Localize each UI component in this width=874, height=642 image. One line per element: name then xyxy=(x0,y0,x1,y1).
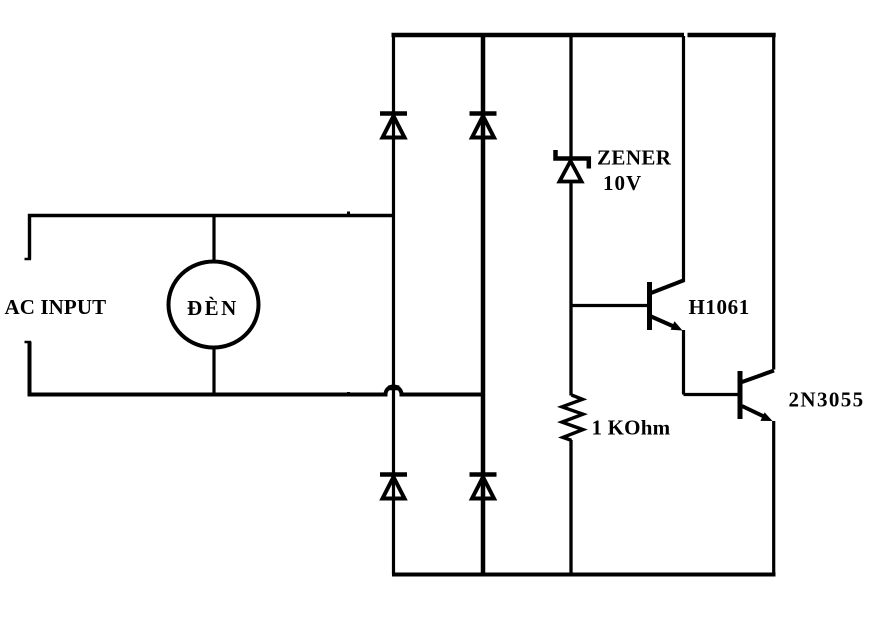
svg-text:ĐÈN: ĐÈN xyxy=(187,296,239,320)
svg-text:ZENER: ZENER xyxy=(597,146,672,170)
svg-text:2N3055: 2N3055 xyxy=(789,388,865,412)
svg-text:1 KOhm: 1 KOhm xyxy=(592,416,671,440)
svg-text:10V: 10V xyxy=(603,171,642,195)
svg-text:H1061: H1061 xyxy=(689,295,750,319)
svg-text:AC INPUT: AC INPUT xyxy=(5,295,107,319)
